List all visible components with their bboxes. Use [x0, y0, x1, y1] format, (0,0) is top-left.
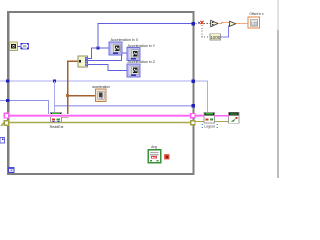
chart Acceleration in X [109, 42, 122, 55]
wire unbundle to chart Z [88, 65, 128, 71]
chart Acceleration in Z [127, 64, 140, 77]
multiply function [211, 20, 218, 27]
indicator Offset in s [248, 17, 260, 28]
orange wire divide to indicator [236, 23, 248, 25]
pink tunnel right [191, 113, 195, 117]
olive tunnel left [4, 121, 9, 126]
svg-text:ReadEst: ReadEst [50, 125, 64, 129]
wire stop to indicator [18, 45, 21, 47]
boolean indicator B [21, 43, 29, 49]
Avg VI icon [148, 150, 161, 163]
blue wire constant to divide [221, 26, 231, 37]
wire to right tunnel (top) [98, 24, 193, 49]
unbundle node [78, 56, 88, 67]
wire L1 branch down to ReadEst [54, 81, 56, 114]
wire unbundle to chart X [88, 48, 110, 58]
svg-text:1.23: 1.23 [251, 22, 258, 26]
divide function [230, 21, 236, 26]
brown cluster wire [61, 61, 78, 117]
junction L1 [53, 80, 56, 83]
wire unbundle to chart Y [88, 53, 128, 61]
coercion dot [229, 24, 231, 26]
svg-text:acceleration: acceleration [92, 85, 110, 89]
numeric constant 1000 [210, 34, 221, 40]
tunnel B right [192, 104, 196, 108]
wire L1 outside to Logout [195, 81, 208, 113]
subVI Logout [204, 112, 215, 123]
wire B lavender [55, 105, 194, 107]
olive tunnel right [191, 121, 195, 125]
chart Acceleration in Y [127, 48, 140, 61]
wire L2 [0, 101, 49, 115]
svg-text:Acceleration in Z: Acceleration in Z [128, 60, 156, 64]
tunnel L1 right [192, 79, 196, 83]
iteration terminal [9, 167, 15, 172]
svg-text:Logout: Logout [204, 124, 214, 128]
svg-text:Acceleration in X: Acceleration in X [111, 38, 139, 42]
stop sign terminal [164, 154, 170, 160]
svg-text:Acceleration in Y: Acceleration in Y [128, 44, 156, 48]
left edge terminal [0, 137, 4, 143]
olive error wire [1, 122, 229, 127]
svg-text:1000: 1000 [210, 35, 221, 40]
brown branch to acceleration [68, 95, 97, 97]
broken wire dashes [196, 24, 211, 38]
tunnel L1 left [6, 79, 9, 82]
cluster indicator acceleration [96, 89, 107, 101]
subVI ReadEst [51, 112, 62, 122]
subVI Close [229, 112, 240, 123]
label Logout (selected) [202, 124, 219, 128]
tunnel L2 left [6, 99, 9, 102]
svg-text:Avg: Avg [151, 145, 157, 149]
junction node chart X wire [97, 47, 100, 50]
stop control terminal A [9, 42, 17, 50]
orange wire mult to divide [218, 22, 230, 23]
pink wire [7, 114, 229, 117]
brown junction [66, 94, 69, 97]
window scrollbar edge [277, 0, 279, 30]
wire lavender L1 [0, 80, 193, 82]
tunnel top right [191, 22, 195, 26]
broken wire blue arrow [198, 21, 200, 24]
while loop border [8, 12, 193, 174]
svg-text:Offset in s: Offset in s [249, 12, 264, 16]
broken wire red X [201, 21, 204, 24]
pink tunnel left [4, 113, 9, 118]
